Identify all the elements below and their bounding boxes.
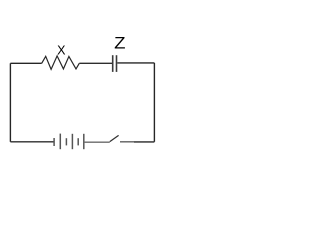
wire bottom-right segment <box>134 141 154 143</box>
wire capacitor-to-corner top-right <box>117 62 154 64</box>
battery (3 cells) <box>54 134 84 150</box>
wire switch contact <box>120 141 134 143</box>
wire battery-to-switch <box>84 141 110 143</box>
svg-text:X: X <box>57 44 66 58</box>
wire top-left segment <box>10 62 41 64</box>
wire bottom-left segment <box>10 141 54 143</box>
wire right side <box>153 63 155 142</box>
label Z (capacitor) <box>114 35 125 53</box>
switch blade (open) <box>110 135 119 141</box>
wire left side <box>9 63 11 142</box>
resistor X <box>42 56 80 70</box>
wire resistor-to-capacitor <box>79 62 112 64</box>
svg-text:Z: Z <box>114 35 125 53</box>
capacitor Z <box>113 55 117 72</box>
label X (resistor) <box>57 44 66 58</box>
